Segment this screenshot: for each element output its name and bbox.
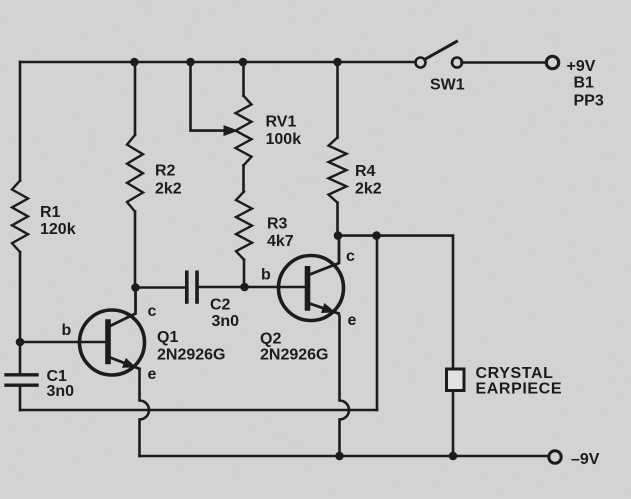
wire Q2 emitter down with hop over mid rail bbox=[339, 314, 350, 457]
node R4/Q2 collector junction bbox=[334, 231, 343, 240]
wire bottom rail bbox=[140, 455, 550, 458]
capacitor C2 bbox=[187, 272, 197, 302]
svg-text:B1: B1 bbox=[574, 75, 595, 92]
svg-text:CRYSTAL: CRYSTAL bbox=[476, 365, 554, 382]
wire C1 bottom to mid rail bbox=[19, 387, 22, 410]
terminal -9V bbox=[549, 451, 561, 463]
svg-text:e: e bbox=[148, 366, 157, 383]
svg-text:R4: R4 bbox=[355, 163, 376, 180]
svg-text:RV1: RV1 bbox=[266, 114, 297, 131]
node feedback riser tap bbox=[372, 231, 381, 240]
svg-text:C2: C2 bbox=[210, 297, 231, 314]
svg-text:Q1: Q1 bbox=[157, 329, 178, 346]
svg-text:R1: R1 bbox=[40, 204, 61, 221]
node R4 top bbox=[333, 58, 342, 67]
wire Q2 base bbox=[245, 286, 305, 289]
svg-text:2N2926G: 2N2926G bbox=[260, 347, 329, 364]
svg-text:–9V: –9V bbox=[571, 451, 600, 468]
wire collector output rail bbox=[338, 236, 453, 456]
svg-text:SW1: SW1 bbox=[430, 77, 465, 94]
wire Q1 base bbox=[20, 341, 105, 344]
svg-text:EARPIECE: EARPIECE bbox=[476, 381, 563, 398]
crystal earpiece LS1 bbox=[447, 369, 465, 391]
resistor R3 bbox=[236, 192, 252, 288]
svg-text:b: b bbox=[62, 322, 72, 339]
svg-text:c: c bbox=[346, 248, 355, 265]
resistor R4 bbox=[329, 62, 347, 236]
svg-text:e: e bbox=[348, 312, 357, 329]
wire top rail bbox=[20, 61, 416, 64]
switch SW1 bbox=[416, 42, 463, 68]
resistor R1 bbox=[12, 181, 28, 253]
wire C2 left bbox=[136, 286, 185, 289]
svg-text:R2: R2 bbox=[155, 163, 176, 180]
node R2 top bbox=[130, 58, 139, 67]
node Q2 emitter at bottom rail bbox=[335, 452, 344, 461]
wire node A to C1 top plate bbox=[19, 342, 22, 373]
wire C2 right to node bbox=[199, 286, 245, 289]
svg-text:2k2: 2k2 bbox=[355, 181, 382, 198]
node C2/R3/Q2 base junction bbox=[240, 283, 249, 292]
wire RV1 wiper bbox=[191, 62, 224, 131]
svg-text:3n0: 3n0 bbox=[212, 313, 240, 330]
svg-text:100k: 100k bbox=[266, 131, 302, 148]
svg-text:c: c bbox=[148, 303, 157, 320]
svg-text:R3: R3 bbox=[267, 216, 288, 233]
transistor Q1 bbox=[80, 288, 145, 376]
wire mid rail (C1 bottom to feedback riser) bbox=[20, 409, 377, 412]
svg-text:PP3: PP3 bbox=[574, 93, 604, 110]
wire feedback riser bbox=[376, 236, 379, 410]
svg-text:b: b bbox=[261, 267, 271, 284]
node A (R1/C1/Q1 base junction) bbox=[16, 338, 25, 347]
node RV1 wiper top bbox=[186, 58, 195, 67]
node earpiece bottom bbox=[449, 452, 458, 461]
svg-text:3n0: 3n0 bbox=[47, 383, 75, 400]
terminal +9V battery B1 bbox=[546, 56, 558, 68]
wire SW1 to battery terminal bbox=[462, 61, 547, 64]
resistor R2 bbox=[127, 62, 143, 288]
svg-text:2N2926G: 2N2926G bbox=[157, 347, 226, 364]
node Q1 collector junction bbox=[131, 283, 140, 292]
node RV1 top bbox=[239, 58, 248, 67]
wire left rail upper (top to R1) bbox=[19, 62, 22, 181]
wire R1 bottom to node A bbox=[19, 252, 22, 342]
svg-text:+9V: +9V bbox=[567, 58, 596, 75]
svg-text:Q2: Q2 bbox=[260, 331, 281, 348]
svg-text:120k: 120k bbox=[40, 221, 76, 238]
capacitor C1 bbox=[6, 375, 37, 385]
potentiometer RV1 bbox=[236, 62, 252, 192]
wiper arrowhead bbox=[224, 125, 239, 136]
wire Q1 emitter down with hop over mid rail bbox=[140, 369, 150, 456]
svg-text:4k7: 4k7 bbox=[267, 233, 294, 250]
transistor Q2 bbox=[279, 236, 344, 321]
svg-text:2k2: 2k2 bbox=[155, 181, 182, 198]
